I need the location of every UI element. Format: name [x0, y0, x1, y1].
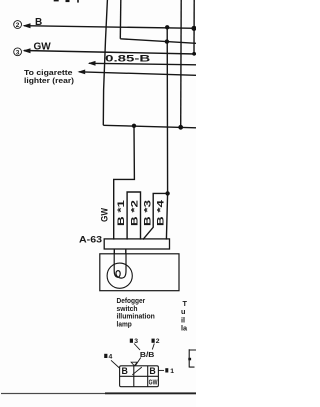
svg-text:A-63: A-63 — [79, 234, 102, 245]
svg-text:B *1: B *1 — [116, 200, 126, 226]
svg-text:B *4: B *4 — [156, 200, 166, 226]
svg-text:lamp: lamp — [117, 319, 133, 328]
svg-text:la: la — [181, 324, 188, 333]
svg-text:GW: GW — [149, 377, 158, 386]
svg-text:GW: GW — [100, 208, 110, 222]
svg-text:B: B — [35, 17, 42, 28]
svg-text:B *2: B *2 — [130, 200, 140, 226]
svg-text:GW: GW — [34, 42, 52, 53]
svg-text:2: 2 — [16, 22, 20, 29]
svg-text:B: B — [122, 366, 128, 376]
svg-text:4: 4 — [109, 354, 113, 361]
svg-text:B/B: B/B — [140, 350, 155, 359]
svg-text:3: 3 — [16, 49, 20, 56]
svg-text:2: 2 — [156, 338, 160, 345]
svg-text:B: B — [149, 366, 155, 376]
svg-text:B *3: B *3 — [143, 200, 153, 226]
svg-text:0.85-B: 0.85-B — [105, 54, 150, 65]
svg-text:1: 1 — [170, 368, 174, 375]
svg-text:lighter (rear): lighter (rear) — [24, 76, 75, 85]
